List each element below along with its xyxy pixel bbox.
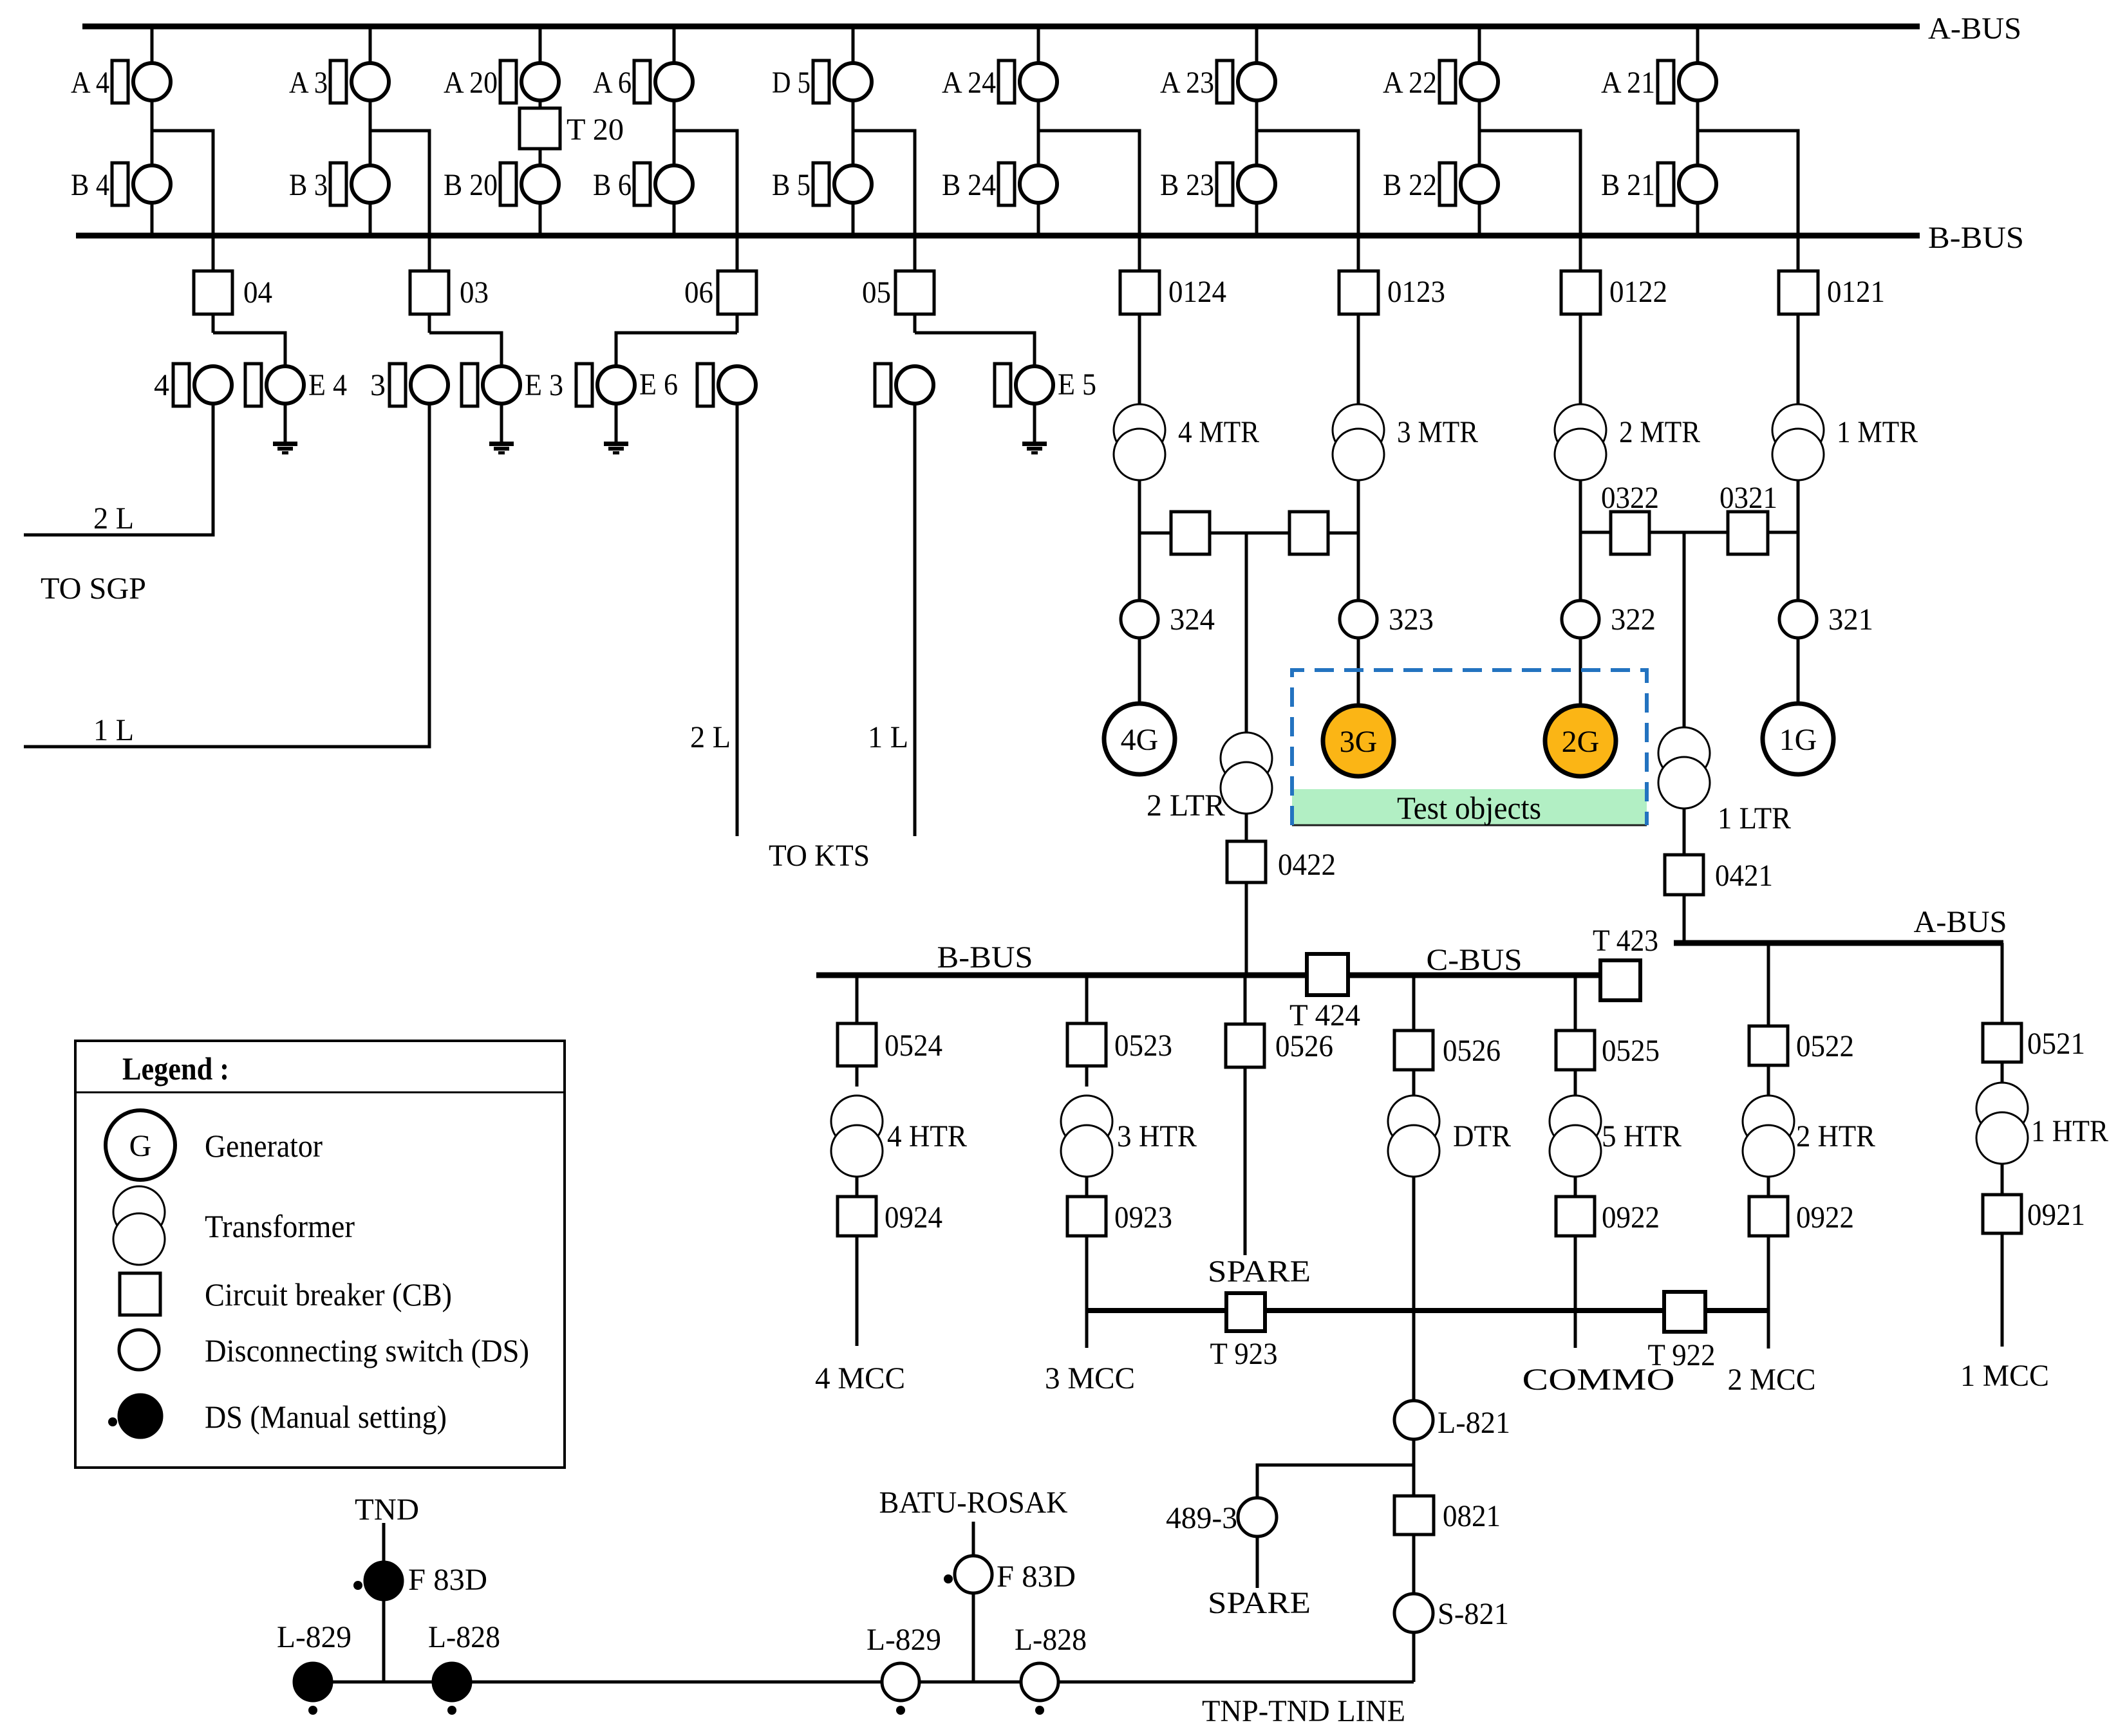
wire <box>1698 131 1798 236</box>
disconnecting switch A 4 <box>112 61 128 103</box>
circuit breaker 0321 <box>1728 512 1768 554</box>
wire <box>1037 204 1040 236</box>
disconnecting switch A 20 <box>500 61 516 103</box>
svg-text:Generator: Generator <box>205 1128 323 1164</box>
dot <box>447 1706 456 1715</box>
svg-text:A-BUS: A-BUS <box>1928 12 2021 46</box>
wire <box>1767 1236 1770 1349</box>
transformer 3 HTR <box>1061 1096 1112 1147</box>
circuit breaker 0523 <box>1067 1023 1106 1066</box>
bus A-BUS (lower) <box>1674 940 2003 946</box>
wire <box>1245 882 1248 975</box>
dot <box>896 1706 905 1715</box>
legend disconnecting switch symbol <box>119 1330 159 1370</box>
circuit breaker T 423 <box>1600 960 1640 1000</box>
svg-text:TO KTS: TO KTS <box>769 839 870 873</box>
svg-text:A 23: A 23 <box>1160 66 1214 100</box>
disconnecting switch A 24 <box>998 61 1015 103</box>
svg-text:E 3: E 3 <box>525 368 563 402</box>
svg-text:0526: 0526 <box>1275 1029 1333 1063</box>
wire <box>1033 405 1036 442</box>
svg-text:B 3: B 3 <box>289 168 328 202</box>
svg-text:DTR: DTR <box>1453 1119 1511 1153</box>
transformer 4 MTR <box>1114 404 1165 456</box>
wire BATU-ROSAK <box>972 1522 975 1682</box>
legend DS manual symbol <box>119 1395 162 1437</box>
svg-text:A 6: A 6 <box>593 66 632 100</box>
svg-text:0821: 0821 <box>1443 1499 1501 1533</box>
wire <box>1580 531 1611 534</box>
wire <box>369 102 372 164</box>
svg-text:2 L: 2 L <box>690 720 731 754</box>
svg-text:E 4: E 4 <box>308 368 347 402</box>
circuit breaker 04 <box>194 271 232 314</box>
transformer 4 HTR <box>831 1096 883 1147</box>
svg-text:A 22: A 22 <box>1383 66 1437 100</box>
wire <box>1649 531 1728 534</box>
svg-text:A 3: A 3 <box>289 66 328 100</box>
wire <box>369 204 372 236</box>
wire <box>1257 131 1358 236</box>
wire <box>1085 1177 1089 1197</box>
wire <box>1683 895 1686 943</box>
svg-text:B-BUS: B-BUS <box>1928 221 2024 255</box>
svg-text:3 MCC: 3 MCC <box>1045 1361 1135 1395</box>
wire <box>1256 1536 1259 1588</box>
wire <box>1412 1632 1416 1682</box>
wire <box>1038 131 1139 236</box>
wire <box>1357 480 1360 601</box>
disconnecting switch 4 <box>173 364 189 406</box>
legend transformer symbol <box>113 1186 165 1238</box>
svg-text:T 922: T 922 <box>1648 1338 1716 1372</box>
svg-text:04: 04 <box>243 275 272 310</box>
circuit breaker 0525 <box>1556 1031 1595 1070</box>
dot <box>1035 1706 1044 1715</box>
circuit breaker T 20 <box>520 108 560 149</box>
svg-text:Legend :: Legend : <box>122 1050 229 1087</box>
svg-text:1 LTR: 1 LTR <box>1718 801 1791 835</box>
wire <box>1696 26 1700 62</box>
svg-text:2 L: 2 L <box>93 501 134 536</box>
circuit breaker 0921 <box>1983 1195 2021 1233</box>
svg-text:E 5: E 5 <box>1058 368 1096 402</box>
svg-text:0526: 0526 <box>1443 1034 1501 1068</box>
wire <box>674 131 737 236</box>
wire <box>1696 204 1700 236</box>
wire <box>1139 532 1171 535</box>
svg-text:2 MCC: 2 MCC <box>1728 1363 1816 1397</box>
svg-text:B 5: B 5 <box>772 168 811 202</box>
wire <box>2001 1062 2004 1083</box>
wire <box>852 204 855 236</box>
svg-text:L-821: L-821 <box>1438 1406 1510 1440</box>
wire <box>615 405 618 442</box>
wire <box>1245 533 1248 733</box>
wire <box>1255 26 1259 62</box>
wire <box>1478 204 1481 236</box>
disconnecting switch F 83D <box>955 1556 992 1593</box>
disconnecting switch B 24 <box>998 163 1015 205</box>
circuit breaker T 922 <box>1664 1292 1705 1332</box>
disconnecting switch B 3 <box>330 163 346 205</box>
wire <box>856 978 859 1023</box>
disconnecting switch B 23 <box>1217 163 1233 205</box>
wire <box>1138 638 1141 703</box>
legend box <box>75 1041 565 1468</box>
svg-text:2G: 2G <box>1562 725 1600 759</box>
bus tie (T 923 / T 922) <box>1086 1308 1768 1313</box>
wire <box>284 405 287 442</box>
wire <box>539 204 542 236</box>
wire <box>539 102 542 108</box>
wire <box>428 314 431 333</box>
svg-text:0522: 0522 <box>1796 1029 1854 1063</box>
wire <box>1257 1465 1414 1498</box>
circuit breaker 0923 <box>1067 1197 1106 1236</box>
svg-text:0924: 0924 <box>885 1200 942 1235</box>
wire <box>539 149 542 164</box>
bus B-BUS / C-BUS (lower) <box>816 973 1600 978</box>
svg-text:SPARE: SPARE <box>1208 1255 1311 1289</box>
svg-text:0922: 0922 <box>1796 1200 1854 1235</box>
wire <box>1768 531 1798 534</box>
disconnecting switch S-821 <box>1394 1594 1433 1632</box>
svg-text:S-821: S-821 <box>1438 1597 1509 1631</box>
svg-text:0523: 0523 <box>1114 1029 1172 1063</box>
disconnecting switch A 21 <box>1658 61 1674 103</box>
circuit breaker 0422 <box>1227 841 1266 882</box>
wire <box>1138 236 1141 271</box>
svg-text:3G: 3G <box>1340 725 1378 759</box>
wire <box>1797 480 1800 601</box>
circuit breaker 0122 <box>1561 271 1600 314</box>
wire <box>1579 236 1582 271</box>
svg-text:B 24: B 24 <box>942 168 996 202</box>
svg-text:B-BUS: B-BUS <box>937 940 1033 975</box>
wire <box>1767 1065 1770 1096</box>
svg-text:TND: TND <box>355 1493 419 1527</box>
wire <box>1696 102 1700 164</box>
disconnecting switch A 6 <box>634 61 650 103</box>
wire <box>736 314 739 333</box>
circuit breaker 0123 <box>1339 271 1378 314</box>
svg-text:B 6: B 6 <box>593 168 632 202</box>
wire <box>914 236 917 271</box>
svg-text:E 6: E 6 <box>639 368 678 402</box>
svg-text:4G: 4G <box>1121 723 1159 757</box>
disconnecting switch E 3 (earthing) <box>462 364 478 406</box>
circuit breaker 0526 (spare) <box>1226 1024 1264 1067</box>
wire <box>1357 314 1360 405</box>
wire <box>1255 204 1259 236</box>
bus A-BUS (top) <box>82 24 1920 30</box>
svg-text:A 4: A 4 <box>71 66 109 100</box>
circuit breaker 0821 <box>1394 1496 1434 1535</box>
wire <box>1357 236 1360 271</box>
wire <box>539 26 542 62</box>
circuit breaker 05 <box>895 271 934 314</box>
wire <box>1797 236 1800 271</box>
disconnecting switch L-821 <box>1394 1401 1433 1439</box>
svg-text:0122: 0122 <box>1609 275 1667 309</box>
wire <box>673 26 676 62</box>
svg-text:Circuit breaker (CB): Circuit breaker (CB) <box>205 1276 452 1312</box>
svg-text:0124: 0124 <box>1168 275 1226 309</box>
disconnecting switch B 6 <box>634 163 650 205</box>
wire TNP-TND line <box>313 1681 1414 1684</box>
svg-text:B 20: B 20 <box>444 168 498 202</box>
test objects dashed boundary <box>1292 670 1647 825</box>
wire <box>1255 102 1259 164</box>
generator 3G <box>1323 705 1394 776</box>
wire <box>1797 314 1800 405</box>
wire <box>428 236 431 271</box>
transformer 2 HTR <box>1743 1096 1794 1147</box>
test objects green band <box>1292 789 1647 825</box>
dot <box>353 1581 362 1590</box>
wire <box>212 236 215 271</box>
bus B-BUS (top) <box>76 233 1920 239</box>
svg-text:C-BUS: C-BUS <box>1427 943 1523 977</box>
wire <box>1245 814 1248 841</box>
svg-text:A-BUS: A-BUS <box>1914 905 2007 939</box>
svg-text:322: 322 <box>1611 602 1656 637</box>
wire <box>1683 808 1686 855</box>
disconnecting switch A 23 <box>1217 61 1233 103</box>
svg-text:324: 324 <box>1170 602 1215 637</box>
circuit breaker 03 <box>410 271 449 314</box>
circuit breaker 0524 <box>838 1023 876 1066</box>
legend circuit breaker symbol <box>120 1273 160 1315</box>
wire <box>1683 532 1686 727</box>
wire <box>1244 1067 1247 1255</box>
svg-text:0923: 0923 <box>1114 1200 1172 1235</box>
wire <box>429 333 501 366</box>
wire <box>1357 638 1360 705</box>
svg-text:L-828: L-828 <box>428 1620 500 1654</box>
wire <box>152 131 213 236</box>
wire <box>853 131 915 236</box>
wire <box>1574 1177 1577 1197</box>
svg-text:489-3: 489-3 <box>1166 1501 1237 1535</box>
transformer 2 MTR <box>1555 404 1606 456</box>
wire <box>2001 1164 2004 1195</box>
svg-text:03: 03 <box>460 275 489 310</box>
wire <box>673 204 676 236</box>
circuit breaker 06 <box>718 271 756 314</box>
circuit breaker 0522 <box>1749 1026 1788 1065</box>
svg-text:F 83D: F 83D <box>408 1563 487 1597</box>
svg-text:0921: 0921 <box>2027 1198 2085 1232</box>
svg-text:0524: 0524 <box>885 1029 942 1063</box>
svg-text:A 20: A 20 <box>444 66 498 100</box>
svg-text:B 23: B 23 <box>1160 168 1214 202</box>
svg-text:0121: 0121 <box>1827 275 1885 309</box>
wire <box>852 102 855 164</box>
legend generator symbol <box>106 1110 175 1180</box>
disconnecting switch A 3 <box>330 61 346 103</box>
circuit breaker 0526 (DTR) <box>1394 1031 1433 1070</box>
disconnecting switch 3 <box>389 364 406 406</box>
svg-text:A 21: A 21 <box>1601 66 1655 100</box>
disconnecting switch L-828 <box>1021 1663 1058 1701</box>
wire <box>1412 978 1416 1031</box>
disconnecting switch E 5 (earthing) <box>995 364 1011 406</box>
svg-text:DS (Manual setting): DS (Manual setting) <box>205 1399 447 1435</box>
svg-text:1 MCC: 1 MCC <box>1960 1359 2049 1393</box>
generator 1G <box>1763 704 1833 774</box>
svg-text:A 24: A 24 <box>942 66 996 100</box>
svg-text:T 424: T 424 <box>1289 998 1360 1032</box>
wire <box>616 333 737 366</box>
transformer 2 LTR <box>1221 733 1272 784</box>
wire <box>1579 638 1582 705</box>
test objects green band bottom edge <box>1292 825 1647 826</box>
wire <box>1767 946 1770 1026</box>
svg-text:D 5: D 5 <box>772 66 811 100</box>
disconnecting switch L-828 (manual) <box>433 1663 471 1701</box>
svg-text:05: 05 <box>862 275 891 310</box>
wire <box>1478 26 1481 62</box>
svg-text:TO SGP: TO SGP <box>41 572 146 606</box>
disconnecting switch B 4 <box>112 163 128 205</box>
svg-text:323: 323 <box>1389 602 1434 637</box>
svg-text:1 L: 1 L <box>93 713 134 747</box>
wire <box>1412 1177 1416 1401</box>
wire <box>1085 978 1089 1023</box>
svg-text:L-829: L-829 <box>277 1620 351 1654</box>
wire <box>1479 131 1580 236</box>
circuit breaker 0922 (2 HTR) <box>1749 1197 1788 1236</box>
dot <box>308 1706 317 1715</box>
wire <box>1085 1236 1089 1348</box>
svg-text:1 L: 1 L <box>868 720 908 754</box>
wire <box>212 314 215 333</box>
wire <box>500 405 503 442</box>
wire <box>852 26 855 62</box>
wire 1 L to KTS <box>914 405 917 836</box>
disconnecting switch B 20 <box>500 163 516 205</box>
svg-text:4 MTR: 4 MTR <box>1178 415 1259 449</box>
svg-text:SPARE: SPARE <box>1208 1586 1311 1620</box>
wire <box>151 26 154 62</box>
transformer 1 MTR <box>1772 404 1824 456</box>
generator 4G <box>1104 704 1175 774</box>
svg-text:T 923: T 923 <box>1210 1337 1278 1371</box>
wire <box>1138 314 1141 405</box>
disconnecting switch <box>697 364 713 406</box>
wire <box>1767 1177 1770 1197</box>
wire <box>856 1066 859 1087</box>
svg-text:B 22: B 22 <box>1383 168 1437 202</box>
disconnecting switch 322 <box>1562 601 1599 638</box>
svg-text:T 20: T 20 <box>567 113 624 147</box>
circuit breaker 0521 <box>1983 1023 2021 1062</box>
svg-text:B 21: B 21 <box>1601 168 1655 202</box>
wire <box>1037 102 1040 164</box>
circuit breaker 0421 <box>1665 855 1703 895</box>
svg-text:0322: 0322 <box>1601 481 1659 515</box>
svg-text:4 HTR: 4 HTR <box>887 1119 967 1153</box>
wire <box>1478 102 1481 164</box>
wire 1 L to SGP <box>24 405 429 747</box>
transformer 3 MTR <box>1333 404 1384 456</box>
svg-text:3: 3 <box>370 368 386 402</box>
wire <box>1210 532 1289 535</box>
svg-text:0922: 0922 <box>1602 1200 1660 1235</box>
wire <box>370 131 429 236</box>
wire <box>151 102 154 164</box>
disconnecting switch B 21 <box>1658 163 1674 205</box>
disconnecting switch E 6 (earthing) <box>576 364 592 406</box>
wire <box>1412 1439 1416 1496</box>
disconnecting switch F 83D (manual) <box>365 1562 402 1600</box>
svg-text:Test objects: Test objects <box>1397 790 1541 826</box>
svg-text:Transformer: Transformer <box>205 1208 355 1244</box>
svg-text:F 83D: F 83D <box>997 1560 1076 1594</box>
wire TND <box>382 1523 386 1682</box>
svg-text:0521: 0521 <box>2027 1027 2085 1061</box>
ground <box>604 442 628 446</box>
svg-text:4: 4 <box>154 368 169 402</box>
wire <box>736 236 739 271</box>
transformer 5 HTR <box>1550 1096 1601 1147</box>
wire <box>1579 314 1582 405</box>
disconnecting switch 323 <box>1340 601 1377 638</box>
wire <box>1412 1070 1416 1096</box>
transformer DTR <box>1388 1096 1439 1147</box>
wire <box>1328 532 1358 535</box>
wire 2 L to SGP <box>24 405 213 535</box>
wire <box>151 204 154 236</box>
wire <box>1085 1066 1089 1087</box>
wire <box>856 1236 859 1346</box>
disconnecting switch 321 <box>1779 601 1817 638</box>
wire <box>1412 1535 1416 1594</box>
svg-text:L-829: L-829 <box>867 1623 941 1657</box>
svg-text:BATU-ROSAK: BATU-ROSAK <box>879 1486 1068 1520</box>
svg-text:B 4: B 4 <box>71 168 109 202</box>
circuit breaker (3 MTR tie) <box>1289 512 1328 554</box>
svg-text:L-828: L-828 <box>1015 1623 1087 1657</box>
disconnecting switch 324 <box>1121 601 1158 638</box>
svg-text:1G: 1G <box>1779 723 1817 757</box>
svg-text:1 MTR: 1 MTR <box>1837 415 1918 449</box>
wire <box>673 102 676 164</box>
wire <box>1797 638 1800 703</box>
svg-text:0422: 0422 <box>1278 848 1336 882</box>
transformer 1 HTR <box>1976 1083 2028 1134</box>
circuit breaker 0124 <box>1120 271 1159 314</box>
wire <box>1574 1236 1577 1348</box>
svg-text:TNP-TND LINE: TNP-TND LINE <box>1202 1694 1405 1728</box>
wire <box>1244 978 1247 1024</box>
svg-text:1 HTR: 1 HTR <box>2031 1114 2108 1148</box>
wire <box>914 314 917 333</box>
circuit breaker 0924 <box>838 1197 876 1236</box>
circuit breaker 0922 (5 HTR) <box>1556 1197 1595 1236</box>
circuit breaker T 923 <box>1226 1293 1265 1331</box>
wire <box>1574 978 1577 1031</box>
legend header line <box>75 1092 565 1094</box>
svg-text:0421: 0421 <box>1715 859 1773 893</box>
disconnecting switch <box>875 364 891 406</box>
svg-text:2 MTR: 2 MTR <box>1619 415 1700 449</box>
circuit breaker (4 MTR tie) <box>1171 512 1210 554</box>
svg-text:2 LTR: 2 LTR <box>1147 789 1225 823</box>
disconnecting switch L-829 <box>882 1663 919 1701</box>
